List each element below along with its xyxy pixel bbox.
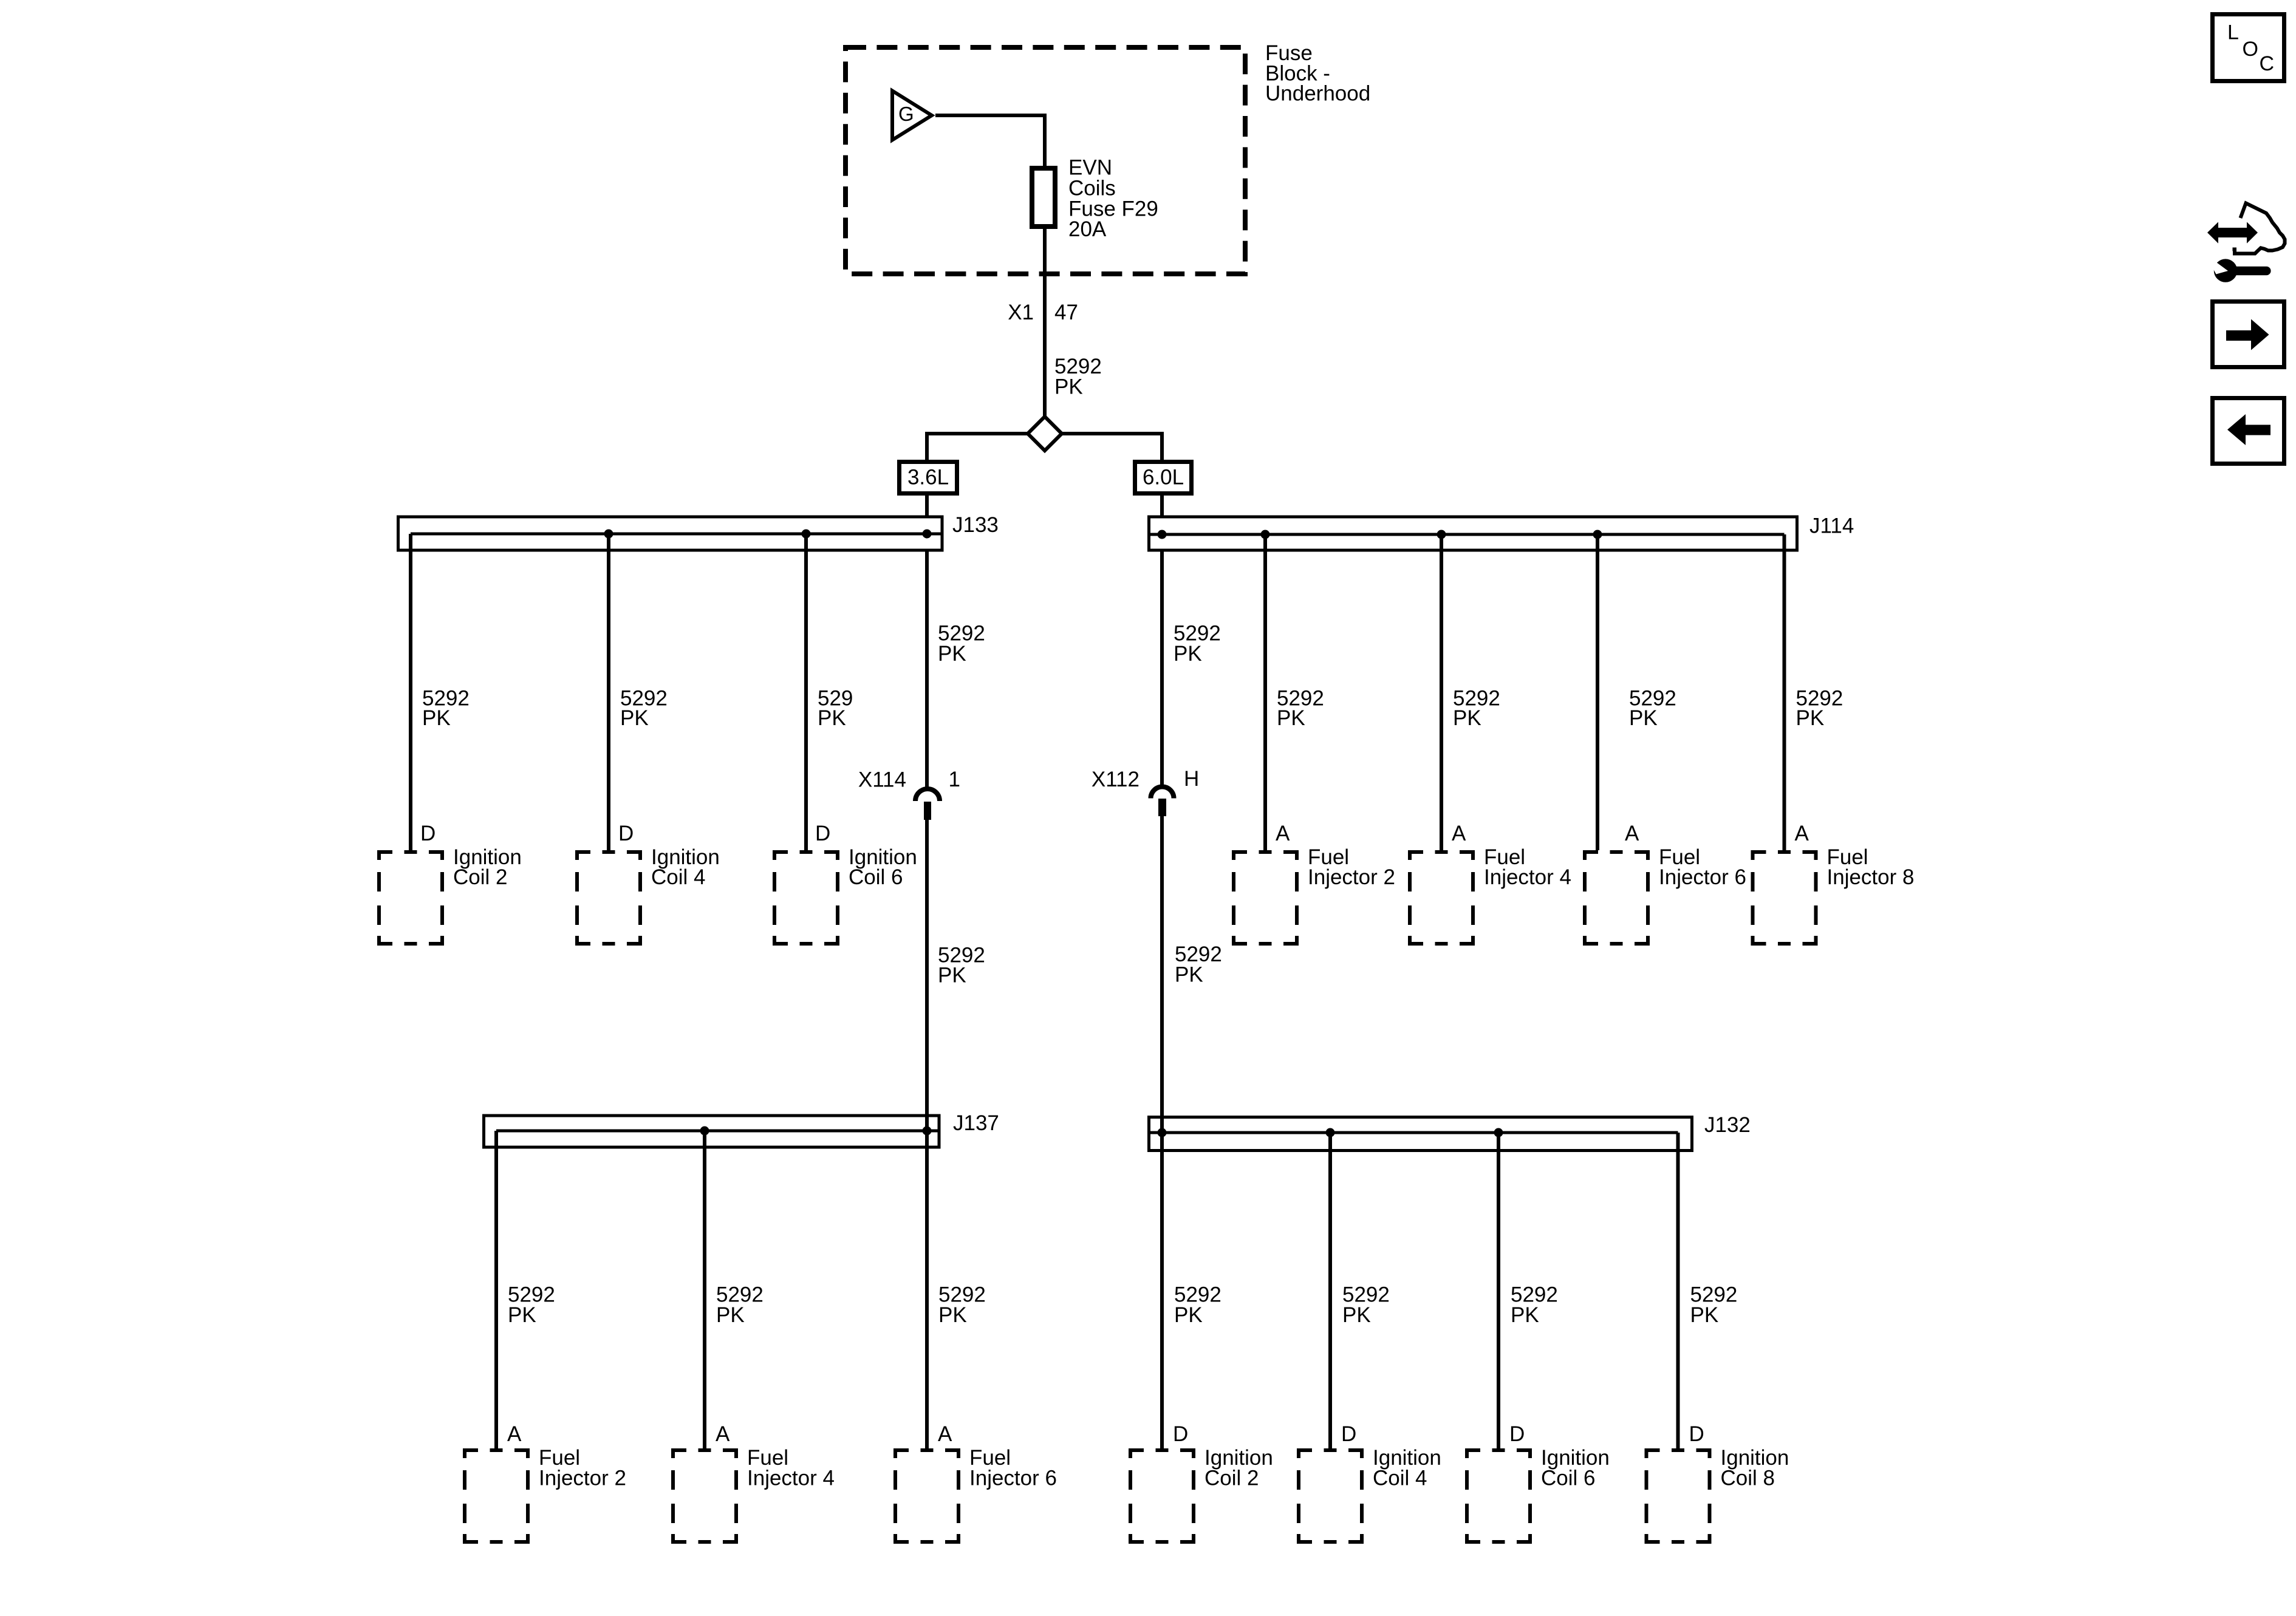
svg-text:C: C <box>2260 52 2275 75</box>
splice pack J114 <box>1149 517 1797 550</box>
svg-text:X112: X112 <box>1092 768 1139 791</box>
svg-text:A: A <box>1276 822 1290 845</box>
svg-text:A: A <box>716 1422 730 1446</box>
fuel injector 2 (6.0L) <box>1232 845 1395 946</box>
engine option tag 3.6L <box>900 462 957 494</box>
generator symbol G <box>892 91 932 140</box>
svg-text:D: D <box>1689 1422 1704 1446</box>
junction dot J133 / 3.6L feed <box>923 530 932 539</box>
forward navigation box (right arrow) <box>2213 302 2284 367</box>
junction dot J133 / coil 4 drop <box>604 530 613 539</box>
wire J132 to ignition coil 6 (lower) <box>1497 1133 1500 1448</box>
svg-text:D: D <box>1341 1422 1356 1446</box>
svg-text:J133: J133 <box>952 513 999 537</box>
ignition coil 2 (3.6L) <box>377 845 522 946</box>
wire 6.0L tag to splice pack J114 <box>1160 494 1164 518</box>
svg-text:D: D <box>618 822 634 845</box>
svg-text:O: O <box>2243 38 2258 61</box>
wire J114 to fuel injector 2 <box>1263 534 1267 850</box>
svg-text:H: H <box>1184 767 1199 791</box>
vehicle orientation icon (car front with double arrow) <box>2207 203 2285 254</box>
fuel injector 2 (3.6L) <box>463 1446 626 1544</box>
wire J132 to ignition coil 8 (lower) <box>1676 1133 1680 1448</box>
splice pack J132 <box>1149 1117 1692 1151</box>
wire J137 to fuel injector 2 (lower) <box>494 1131 498 1448</box>
svg-text:D: D <box>815 822 830 845</box>
wire J114 to fuel injector 8 <box>1783 534 1786 850</box>
svg-text:X114: X114 <box>858 768 906 792</box>
wire J133 to ignition coil 2 <box>409 534 412 850</box>
svg-text:A: A <box>1452 822 1466 845</box>
wire J133 to ignition coil 6 <box>804 534 808 850</box>
fuel injector 6 (6.0L) <box>1583 845 1746 946</box>
svg-text:1: 1 <box>949 768 960 791</box>
wire splice to 6.0L tag <box>1062 434 1162 462</box>
svg-text:3.6L: 3.6L <box>907 466 949 489</box>
wire J137 to fuel injector 4 (lower) <box>703 1131 706 1448</box>
splice pack J133 <box>398 517 943 550</box>
engine option tag 6.0L <box>1135 462 1192 494</box>
wire J114 to connector X112 <box>1160 550 1164 786</box>
wire G to fuse F29 <box>935 115 1045 168</box>
wire J114 to fuel injector 6 <box>1596 534 1599 850</box>
junction dot J132 / coil 6 drop <box>1494 1128 1503 1137</box>
svg-text:D: D <box>420 822 436 845</box>
wire X112 through splice pack J132 to ignition coil 2 <box>1160 816 1164 1448</box>
svg-text:D: D <box>1173 1422 1188 1446</box>
svg-text:6.0L: 6.0L <box>1143 466 1184 489</box>
splice (diamond) <box>1028 417 1062 451</box>
splice pack J137 <box>484 1116 940 1147</box>
junction dot J114 / 6.0L feed <box>1158 530 1167 539</box>
svg-text:A: A <box>1795 822 1809 845</box>
junction dot J137 / injector 4 drop <box>700 1127 709 1136</box>
ignition coil 6 (3.6L) <box>773 845 917 946</box>
fuse EVN Coils Fuse F29 20A <box>1032 168 1055 227</box>
svg-text:L: L <box>2227 21 2239 44</box>
wire J114 to fuel injector 4 <box>1440 534 1443 850</box>
svg-text:J132: J132 <box>1704 1113 1751 1137</box>
wire X114 through splice pack J137 to fuel injector 6 <box>925 820 929 1448</box>
junction dot J132 / coil 4 drop <box>1326 1128 1335 1137</box>
wire splice to 3.6L tag <box>927 434 1028 462</box>
wire J132 to ignition coil 4 (lower) <box>1328 1133 1332 1448</box>
junction dot J114 / injector 2 drop <box>1261 530 1270 539</box>
junction dot J137 / X114 feed <box>923 1127 932 1136</box>
wire J133 to connector X114 <box>925 550 929 789</box>
connector X112 pin H <box>1151 787 1174 817</box>
junction dot J132 / X112 feed <box>1158 1128 1167 1137</box>
ignition coil 2 (6.0L) <box>1129 1446 1273 1544</box>
junction dot J114 / injector 4 drop <box>1437 530 1446 539</box>
fuel injector 4 (6.0L) <box>1408 845 1571 946</box>
svg-text:J114: J114 <box>1809 514 1854 538</box>
svg-text:A: A <box>1625 822 1639 845</box>
svg-text:G: G <box>898 103 914 125</box>
ignition coil 6 (6.0L) <box>1465 1446 1610 1544</box>
ignition coil 8 (6.0L) <box>1645 1446 1789 1544</box>
svg-text:D: D <box>1509 1422 1525 1446</box>
fuse block - underhood dashed enclosure <box>846 47 1245 274</box>
LOC legend box <box>2213 15 2284 81</box>
junction dot J133 / coil 6 drop <box>802 530 811 539</box>
svg-text:A: A <box>938 1422 952 1446</box>
fuel injector 4 (3.6L) <box>671 1446 835 1544</box>
ignition coil 4 (6.0L) <box>1297 1446 1441 1544</box>
ignition coil 4 (3.6L) <box>575 845 720 946</box>
fuel injector 6 (3.6L) <box>893 1446 1057 1544</box>
svg-text:A: A <box>507 1422 522 1446</box>
wire 3.6L tag to splice pack J133 <box>925 494 929 517</box>
fuel injector 8 (6.0L) <box>1751 845 1915 946</box>
wrench icon <box>2213 259 2271 282</box>
wire fuse F29 through connector X1 pin 47 to splice <box>1043 229 1047 417</box>
backward navigation box (left arrow) <box>2213 398 2284 464</box>
connector X114 pin 1 <box>915 789 940 820</box>
svg-text:J137: J137 <box>953 1111 999 1135</box>
wire J133 to ignition coil 4 <box>607 534 610 850</box>
junction dot J114 / injector 6 drop <box>1593 530 1602 539</box>
